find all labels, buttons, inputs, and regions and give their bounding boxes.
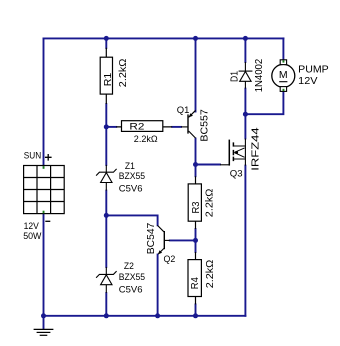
wire D1 bottom	[244, 89, 246, 115]
motor PUMP M	[272, 60, 295, 92]
svg-text:BZX55: BZX55	[119, 171, 145, 181]
label minus	[45, 220, 50, 222]
svg-text:R4: R4	[190, 277, 201, 290]
resistor R4	[188, 252, 201, 304]
wire R2 left	[106, 126, 116, 128]
wire Z1 top	[105, 127, 107, 165]
svg-text:2.2kΩ: 2.2kΩ	[204, 189, 215, 218]
svg-text:BC557: BC557	[200, 109, 211, 141]
junction Q1 collector gate R3	[193, 162, 198, 167]
wire pump top	[282, 38, 284, 59]
svg-text:12V: 12V	[24, 221, 40, 231]
svg-text:D1: D1	[230, 71, 241, 82]
svg-text:12V: 12V	[298, 76, 317, 87]
wire node Z to Q2 collector	[106, 215, 157, 225]
resistor R1	[100, 48, 112, 104]
wire Q3 drain	[244, 114, 246, 138]
svg-text:Q2: Q2	[164, 254, 176, 264]
junction top rail Q1	[193, 36, 198, 41]
svg-text:2.2kΩ: 2.2kΩ	[134, 134, 158, 144]
svg-text:C5V6: C5V6	[119, 285, 143, 295]
solar panel SUN	[24, 166, 65, 214]
wire R1 top	[105, 38, 107, 48]
svg-text:50W: 50W	[23, 231, 42, 241]
green pin dot pump top	[283, 60, 285, 62]
wire Q1 emitter to top rail	[195, 38, 197, 111]
wire Z2 top	[105, 215, 107, 267]
wire Q3 source to bottom rail	[244, 166, 246, 316]
svg-text:C5V6: C5V6	[119, 184, 143, 194]
label plus	[45, 154, 52, 161]
wire bottom rail	[44, 315, 246, 317]
green pin dot panel minus	[43, 211, 45, 214]
junction top rail R1	[104, 36, 109, 41]
svg-text:R3: R3	[191, 202, 202, 214]
wire Q1 collector down	[195, 139, 197, 165]
wire R3 bottom	[195, 229, 197, 240]
junction Z2 bottom	[104, 313, 109, 318]
svg-text:SUN: SUN	[24, 150, 41, 160]
junction R4 bottom	[193, 313, 198, 318]
svg-text:IRFZ44: IRFZ44	[250, 126, 261, 170]
wire R4 top	[195, 240, 197, 252]
junction Q2 emitter bottom	[155, 313, 160, 318]
wire Z1 bottom	[105, 191, 107, 216]
wire top rail	[44, 37, 284, 39]
green pin dot pump bottom	[283, 89, 285, 91]
svg-text:Z2: Z2	[124, 261, 134, 271]
junction R3 R4 Q2 base	[193, 238, 198, 243]
zener Z2	[96, 267, 117, 293]
diode D1	[239, 62, 253, 89]
wire Q2 base	[170, 239, 196, 241]
wire Q2 emitter down	[157, 255, 159, 316]
svg-text:M: M	[279, 69, 288, 81]
wire pump bottom	[245, 91, 283, 114]
svg-text:Z1: Z1	[125, 161, 135, 171]
transistor Q1 BC557	[181, 110, 196, 138]
wire ground stub	[43, 316, 45, 329]
svg-text:PUMP: PUMP	[298, 65, 329, 76]
mosfet Q3 IRFZ44	[220, 139, 245, 166]
wire left rail lower	[43, 214, 45, 316]
junction top rail D1	[243, 36, 248, 41]
wire D1 top	[244, 38, 246, 62]
junction node Z	[104, 213, 109, 218]
resistor R2	[116, 121, 172, 132]
ground	[34, 329, 54, 335]
svg-text:R2: R2	[129, 121, 144, 131]
svg-text:2.2kΩ: 2.2kΩ	[205, 260, 216, 289]
svg-text:BC547: BC547	[146, 223, 157, 255]
green pin dot panel plus	[43, 166, 45, 169]
transistor Q2 BC547	[158, 225, 170, 254]
wire R1 bottom	[105, 104, 107, 127]
zener Z1	[96, 165, 117, 191]
svg-text:2.2kΩ: 2.2kΩ	[118, 59, 129, 88]
wire Z2 bottom	[105, 293, 107, 316]
resistor R3	[188, 176, 201, 229]
svg-text:Q3: Q3	[230, 168, 243, 178]
svg-text:R1: R1	[103, 73, 114, 87]
svg-text:BZX55: BZX55	[119, 272, 145, 282]
wire R4 bottom	[195, 304, 197, 315]
svg-text:1N4002: 1N4002	[254, 59, 265, 93]
svg-text:Q1: Q1	[177, 105, 190, 115]
junction D1 pump Q3 drain	[243, 112, 248, 117]
junction R1 R2 Z1	[104, 124, 109, 129]
wire gate of Q3	[196, 164, 221, 166]
wire left rail upper	[43, 38, 45, 165]
junction ground	[41, 313, 46, 318]
wire R2 right to Q1 base	[172, 126, 181, 128]
wire R3 top	[195, 165, 197, 177]
